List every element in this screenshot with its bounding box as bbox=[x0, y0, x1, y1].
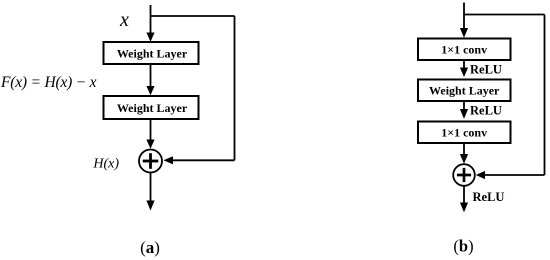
wire: input vertical line (a) bbox=[150, 5, 152, 34]
block: 1x1 conv top (b) bbox=[418, 39, 511, 61]
svg-text:ReLU: ReLU bbox=[470, 104, 502, 118]
adder plus horizontal (a) bbox=[143, 160, 159, 163]
block: 1x1 conv bottom (b) bbox=[418, 122, 511, 144]
svg-text:Weight Layer: Weight Layer bbox=[429, 84, 500, 98]
svg-text:F(x) = H(x) − x: F(x) = H(x) − x bbox=[0, 74, 97, 91]
wire: output arrow (a) bbox=[150, 173, 152, 202]
arrowhead into 1x1 conv box 1 bbox=[460, 28, 468, 38]
svg-text:Weight Layer: Weight Layer bbox=[117, 101, 188, 115]
wire: skip branch horizontal top (b) bbox=[464, 14, 545, 16]
svg-text:1×1 conv: 1×1 conv bbox=[441, 42, 487, 56]
svg-text:Weight Layer: Weight Layer bbox=[117, 46, 188, 60]
wire: skip branch horizontal bottom into adder (b) bbox=[484, 174, 545, 176]
block: Weight Layer 1 (a) bbox=[104, 42, 199, 64]
arrowhead into Weight Layer box 1 bbox=[146, 33, 154, 42]
adder plus vertical (b) bbox=[463, 168, 466, 182]
wire: skip branch vertical right (a) bbox=[234, 16, 236, 160]
wire: output arrow (b) bbox=[463, 186, 465, 204]
wire: skip branch vertical right (b) bbox=[544, 15, 546, 176]
wire: skip branch horizontal bottom into adder (a) bbox=[172, 159, 235, 161]
arrowhead into adder (b) bbox=[476, 171, 485, 179]
wire: input vertical line (b) bbox=[463, 3, 465, 30]
svg-text:1×1 conv: 1×1 conv bbox=[441, 125, 487, 139]
svg-text:(a): (a) bbox=[140, 238, 160, 257]
adder circle (a) bbox=[139, 150, 162, 173]
arrowhead into adder (a) bbox=[164, 156, 174, 164]
wire: arrow Weight Layer 1 to Weight Layer 2 bbox=[150, 64, 152, 87]
adder plus horizontal (b) bbox=[457, 174, 471, 177]
svg-text:ReLU: ReLU bbox=[473, 190, 505, 204]
svg-text:ReLU: ReLU bbox=[470, 63, 502, 77]
svg-text:x: x bbox=[119, 9, 129, 31]
block: Weight Layer (b) bbox=[418, 80, 511, 102]
svg-text:(b): (b) bbox=[453, 237, 473, 256]
block: Weight Layer 2 (a) bbox=[104, 96, 199, 119]
wire: arrow Weight Layer to conv2 (b) bbox=[463, 101, 465, 110]
adder plus vertical (a) bbox=[149, 153, 152, 169]
wire: arrow Weight Layer 2 to adder (a) bbox=[150, 120, 152, 141]
adder circle (b) bbox=[453, 164, 475, 186]
wire: skip branch horizontal top (a) bbox=[151, 15, 235, 17]
wire: arrow conv2 to adder (b) bbox=[463, 143, 465, 155]
wire: arrow conv1 to Weight Layer (b) bbox=[463, 60, 465, 69]
svg-text:H(x): H(x) bbox=[92, 157, 119, 172]
